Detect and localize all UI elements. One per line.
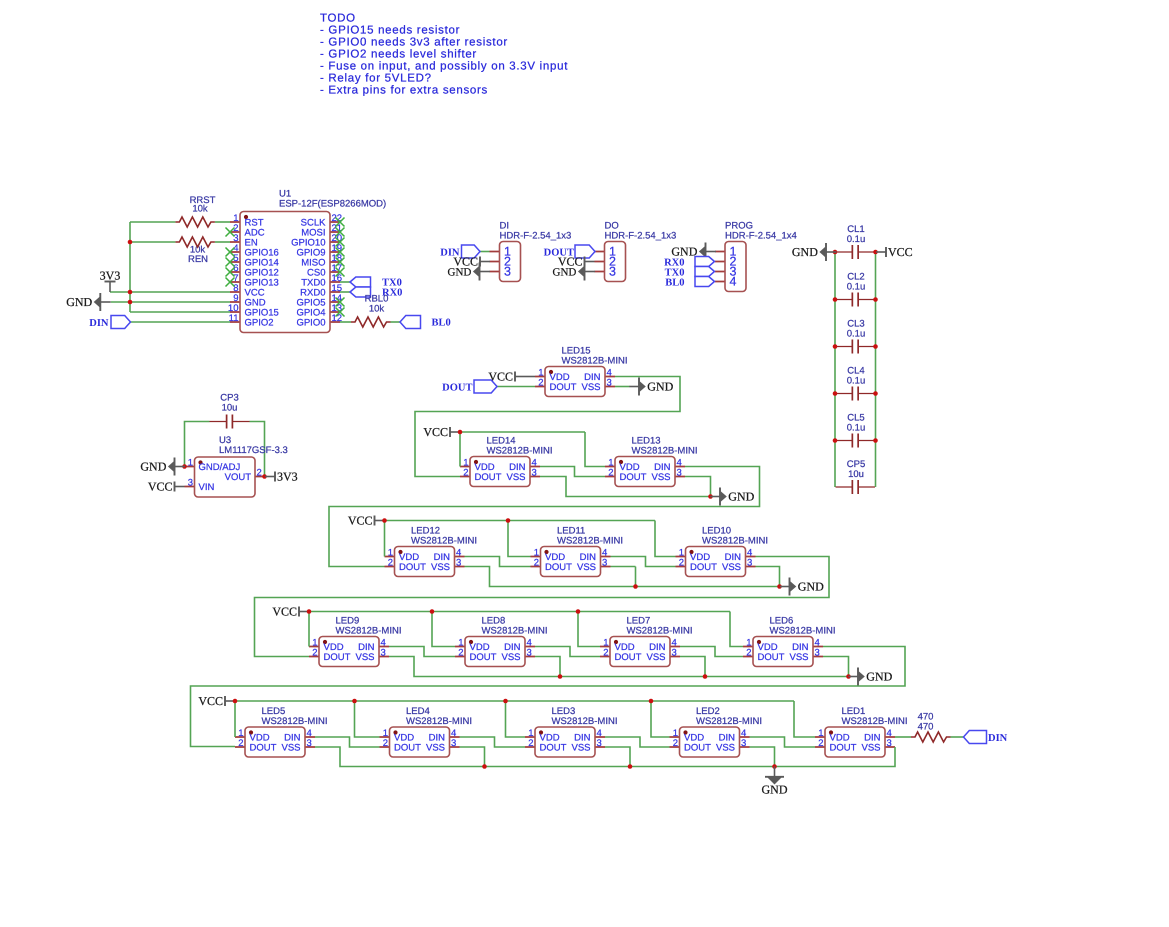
svg-text:VCC: VCC: [148, 480, 173, 494]
junction VCC row 2: [458, 430, 463, 435]
svg-text:10k: 10k: [369, 304, 385, 315]
svg-text:WS2812B-MINI: WS2812B-MINI: [411, 536, 477, 547]
resistor RRST labels: [190, 195, 216, 215]
junction CL1 right: [873, 250, 878, 255]
svg-text:2: 2: [312, 647, 317, 658]
svg-text:GND: GND: [448, 267, 472, 279]
svg-text:DOUT: DOUT: [615, 652, 642, 663]
hierarchical label DOUT at LED15: [474, 380, 497, 393]
LED LED12 refdes/value labels: [411, 526, 477, 547]
ground symbol GND at row 3: [780, 578, 824, 596]
svg-text:WS2812B-MINI: WS2812B-MINI: [627, 626, 693, 637]
svg-text:0.1u: 0.1u: [847, 234, 866, 245]
wire LED3 VSS drop: [605, 747, 630, 767]
svg-text:2: 2: [388, 557, 393, 568]
wire VCC rail row 5: [235, 700, 794, 702]
svg-text:LM1117GSF-3.3: LM1117GSF-3.3: [219, 445, 288, 456]
hierarchical label TX0: [350, 277, 371, 287]
svg-text:3: 3: [381, 647, 386, 658]
svg-text:DOUT: DOUT: [550, 382, 577, 393]
wire VCC rail row 4: [309, 611, 730, 613]
LED LED8 WS2812B-MINI symbol: [455, 637, 535, 667]
LED LED3 refdes/value labels: [552, 706, 618, 727]
svg-text:DOUT: DOUT: [250, 743, 277, 754]
junction VCC row 4: [307, 609, 312, 614]
wire LED5 DIN from LED4 DOUT: [315, 737, 380, 747]
svg-text:- GPIO15 needs resistor: - GPIO15 needs resistor: [320, 25, 460, 37]
power symbol VCC at row 2: [423, 425, 460, 439]
LED LED13 WS2812B-MINI symbol: [605, 457, 685, 487]
wire RBL0 to BL0 label: [391, 321, 401, 323]
svg-text:2: 2: [238, 738, 243, 749]
wire LED2 DIN from LED1 DOUT: [750, 737, 816, 747]
svg-text:- Relay for 5VLED?: - Relay for 5VLED?: [320, 73, 432, 85]
svg-text:GPIO2: GPIO2: [245, 318, 274, 329]
capacitor CL4 labels: [847, 366, 866, 387]
wire LED10 DIN from LED9 DOUT: [255, 557, 830, 657]
ground symbol GND at row 5: [762, 767, 788, 797]
svg-text:- GPIO2 needs level shifter: - GPIO2 needs level shifter: [320, 49, 477, 61]
svg-text:GND: GND: [647, 380, 673, 394]
wire DOUT label to LED15 DOUT: [497, 386, 535, 388]
power symbol VCC at row 3: [348, 514, 385, 528]
resistor 470: [911, 732, 951, 742]
svg-text:DOUT: DOUT: [475, 472, 502, 483]
junction CL4 right: [873, 391, 878, 396]
hierarchical label DIN at U1: [111, 316, 131, 329]
svg-text:GND: GND: [866, 670, 892, 684]
connector DO refdes and value labels: [605, 221, 677, 242]
wire LED13 DIN from LED12 DOUT: [329, 467, 760, 567]
wire LED8 DIN from LED7 DOUT: [535, 647, 600, 657]
wire LED7 VSS drop: [680, 657, 705, 677]
power symbol VCC at row 5: [198, 694, 235, 708]
svg-text:GND: GND: [140, 460, 166, 474]
wire DIN label to U1 pin 11 GPIO2: [131, 321, 231, 323]
capacitor CL5 labels: [847, 413, 866, 434]
svg-text:2: 2: [538, 377, 543, 388]
svg-text:WS2812B-MINI: WS2812B-MINI: [406, 716, 472, 727]
junction VCC drop LED3: [503, 699, 508, 704]
power symbol VCC at U3 VIN: [148, 480, 185, 494]
LED LED1 WS2812B-MINI symbol: [815, 727, 895, 757]
wire VCC drop to LED13 VDD: [585, 432, 605, 467]
wire VCC drop to LED14 VDD: [459, 432, 461, 467]
svg-text:VSS: VSS: [506, 472, 525, 483]
resistor RRST 10k: [175, 217, 214, 227]
svg-text:WS2812B-MINI: WS2812B-MINI: [552, 716, 618, 727]
capacitor CL3 labels: [847, 319, 866, 340]
svg-text:2: 2: [528, 738, 533, 749]
junction VCC drop LED7: [576, 609, 581, 614]
svg-text:2: 2: [534, 557, 539, 568]
wire LED3 DIN from LED2 DOUT: [605, 737, 670, 747]
wire resistor 470 to DIN label: [951, 736, 964, 738]
svg-text:GPIO0: GPIO0: [296, 318, 325, 329]
svg-text:DOUT: DOUT: [394, 743, 421, 754]
junction CL5 right: [873, 438, 878, 443]
junction VCC drop LED4: [352, 699, 357, 704]
svg-text:GND: GND: [66, 295, 92, 309]
svg-text:3V3: 3V3: [277, 470, 298, 484]
ground symbol GND at U1 pin 9: [66, 293, 111, 311]
wire GND to U1 pin 9: [111, 301, 230, 303]
junction VSS LED8 row 4: [558, 674, 563, 679]
svg-text:3: 3: [677, 467, 682, 478]
hierarchical label DOUT at DO: [575, 245, 595, 258]
svg-text:VSS: VSS: [426, 743, 445, 754]
connector DO HDR-F-2.54_1x3 symbol: [595, 242, 626, 282]
svg-text:GND: GND: [762, 783, 788, 797]
wire VCC drop to LED7 VDD: [578, 612, 600, 647]
junction bus/REN: [128, 240, 133, 245]
connector DI HDR-F-2.54_1x3 symbol: [490, 242, 521, 282]
svg-text:WS2812B-MINI: WS2812B-MINI: [487, 446, 553, 457]
wire GND rail of capacitor bank: [834, 252, 836, 487]
svg-text:WS2812B-MINI: WS2812B-MINI: [842, 716, 908, 727]
hierarchical label RX0: [350, 287, 371, 297]
junction VCC row 3: [382, 518, 387, 523]
svg-text:2: 2: [257, 467, 262, 478]
svg-text:GND: GND: [728, 490, 754, 504]
svg-text:ESP-12F(ESP8266MOD): ESP-12F(ESP8266MOD): [279, 199, 386, 210]
resistor REN labels: [188, 245, 208, 266]
svg-text:DOUT: DOUT: [690, 562, 717, 573]
connector DI refdes and value labels: [500, 221, 572, 242]
svg-text:VCC: VCC: [423, 425, 448, 439]
LED LED14 WS2812B-MINI symbol: [460, 457, 540, 487]
svg-text:GND: GND: [671, 245, 697, 259]
svg-text:2: 2: [746, 647, 751, 658]
svg-text:2: 2: [679, 557, 684, 568]
svg-text:2: 2: [463, 467, 468, 478]
ground symbol GND at row 4: [848, 668, 892, 686]
LED LED6 WS2812B-MINI symbol: [743, 637, 823, 667]
wire LED8 VSS drop: [535, 657, 560, 677]
LED LED1 refdes/value labels: [842, 706, 908, 727]
ground symbol GND at DI pin 3: [448, 263, 490, 281]
svg-text:WS2812B-MINI: WS2812B-MINI: [262, 716, 328, 727]
svg-text:2: 2: [673, 738, 678, 749]
no-connect flag U1 pin 14: [336, 298, 345, 307]
svg-text:DOUT: DOUT: [620, 472, 647, 483]
wire VSS rail row 5: [315, 747, 895, 767]
ground symbol GND at capacitor bank: [792, 243, 837, 261]
svg-text:VCC: VCC: [888, 245, 913, 259]
LED LED11 refdes/value labels: [557, 526, 623, 547]
wire VCC rail of capacitor bank: [875, 252, 877, 487]
svg-text:VSS: VSS: [646, 652, 665, 663]
power symbol 3V3 at U1: [100, 269, 121, 293]
ground symbol GND at PROG pin 1: [671, 243, 716, 261]
power symbol VCC at DI pin 2: [453, 255, 490, 269]
svg-text:VSS: VSS: [577, 562, 596, 573]
svg-text:VSS: VSS: [281, 743, 300, 754]
svg-text:DOUT: DOUT: [830, 743, 857, 754]
svg-text:10k: 10k: [192, 204, 208, 215]
junction GND row 5: [772, 764, 777, 769]
junction CL5 left: [833, 438, 838, 443]
svg-text:0.1u: 0.1u: [847, 282, 866, 293]
svg-text:3: 3: [747, 557, 752, 568]
no-connect flag U1 pin 7: [226, 278, 235, 287]
TODO note text block: [320, 13, 568, 97]
svg-text:WS2812B-MINI: WS2812B-MINI: [557, 536, 623, 547]
ground symbol GND at LED15: [629, 378, 673, 396]
resistor RBL0 labels: [365, 294, 389, 315]
wire LED6 DIN from LED5 DOUT: [191, 647, 906, 747]
svg-text:3: 3: [607, 377, 612, 388]
svg-text:VCC: VCC: [198, 694, 223, 708]
LED LED14 refdes/value labels: [487, 436, 553, 457]
resistor REN 10k: [175, 237, 214, 247]
wire LED14 DIN from LED13 DOUT: [540, 467, 605, 477]
wire U1 GPIO0 to RBL0: [340, 321, 351, 323]
no-connect flag U1 pin 4: [226, 248, 235, 257]
no-connect flag U1 pin 18: [336, 258, 345, 267]
junction VCC row 5: [233, 699, 238, 704]
svg-text:TODO: TODO: [320, 13, 356, 25]
svg-text:3: 3: [815, 647, 820, 658]
junction bus/GND row: [128, 300, 133, 305]
svg-text:WS2812B-MINI: WS2812B-MINI: [562, 356, 628, 367]
junction GND row 3: [777, 584, 782, 589]
U1 ESP-12F(ESP8266MOD) symbol: [228, 212, 342, 333]
hierarchical label DIN at LED1: [964, 731, 987, 744]
wire U1 TXD0 to TX0 label: [340, 281, 350, 283]
LED LED9 refdes/value labels: [336, 616, 402, 637]
wire VCC rail row 3: [385, 520, 656, 522]
LED LED4 refdes/value labels: [406, 706, 472, 727]
LED LED10 refdes/value labels: [702, 526, 768, 547]
wire DIN label to DI pin 1: [480, 251, 490, 253]
svg-text:HDR-F-2.54_1x3: HDR-F-2.54_1x3: [605, 231, 677, 242]
LED LED9 WS2812B-MINI symbol: [309, 637, 389, 667]
ground symbol GND at U3: [140, 458, 185, 476]
power symbol 3V3 at U3 VOUT: [265, 470, 298, 484]
svg-text:VSS: VSS: [789, 652, 808, 663]
wire LED11 DIN from LED10 DOUT: [611, 557, 676, 567]
power symbol VCC at row 4: [272, 605, 309, 619]
resistor 470 labels: [918, 712, 934, 733]
junction CL3 left: [833, 344, 838, 349]
LED LED8 refdes/value labels: [482, 616, 548, 637]
junction CL2 left: [833, 297, 838, 302]
wire LED11 VSS stub right: [611, 566, 636, 568]
junction VSS LED4 row 5: [482, 764, 487, 769]
svg-text:2: 2: [818, 738, 823, 749]
wire LED15 DIN from LED14 DOUT: [415, 377, 680, 477]
junction VCC drop LED2: [649, 699, 654, 704]
wire LED1 DIN to resistor 470: [895, 736, 911, 738]
junction U3 VOUT pin: [262, 474, 267, 479]
wire REN left to bus: [130, 241, 175, 243]
hierarchical label BL0 at PROG: [695, 277, 715, 287]
LED LED3 WS2812B-MINI symbol: [525, 727, 605, 757]
no-connect flag U1 pin 6: [226, 268, 235, 277]
wire LED15 VSS to GND: [615, 386, 630, 388]
svg-text:VSS: VSS: [571, 743, 590, 754]
svg-text:VSS: VSS: [861, 743, 880, 754]
LED LED5 WS2812B-MINI symbol: [235, 727, 315, 757]
svg-text:- GPIO0 needs 3v3 after resist: - GPIO0 needs 3v3 after resistor: [320, 37, 508, 49]
wire LED13 VSS to GND rail row 2: [685, 477, 711, 497]
svg-text:2: 2: [608, 467, 613, 478]
svg-text:WS2812B-MINI: WS2812B-MINI: [702, 536, 768, 547]
wire 3V3 to U1 pin 8 VCC: [110, 291, 230, 293]
LED LED5 refdes/value labels: [262, 706, 328, 727]
wire VCC drop to LED5 VDD: [234, 701, 236, 737]
svg-text:3: 3: [504, 265, 511, 279]
svg-text:GND: GND: [553, 267, 577, 279]
no-connect flag U1 pin 13: [336, 308, 345, 317]
LED LED4 WS2812B-MINI symbol: [380, 727, 460, 757]
junction VSS LED11 row 3: [633, 584, 638, 589]
wire LED2 VSS drop: [750, 747, 775, 767]
svg-text:VCC: VCC: [348, 514, 373, 528]
junction VSS LED7 row 4: [703, 674, 708, 679]
junction VCC drop LED8: [430, 609, 435, 614]
wire VCC drop to LED3 VDD: [506, 701, 526, 737]
svg-text:VIN: VIN: [199, 482, 215, 493]
wire VCC drop to LED12 VDD: [384, 521, 386, 557]
svg-text:10u: 10u: [222, 403, 238, 414]
no-connect flag U1 pin 5: [226, 258, 235, 267]
wire U1 RXD0 to RX0 label: [340, 291, 350, 293]
svg-text:DOUT: DOUT: [540, 743, 567, 754]
svg-text:DOUT: DOUT: [545, 562, 572, 573]
svg-text:0.1u: 0.1u: [847, 329, 866, 340]
no-connect flag U1 pin 21: [336, 228, 345, 237]
ground symbol GND at DO pin 3: [553, 263, 595, 281]
svg-text:WS2812B-MINI: WS2812B-MINI: [696, 716, 762, 727]
junction CL3 right: [873, 344, 878, 349]
svg-text:3: 3: [532, 467, 537, 478]
svg-text:3: 3: [451, 738, 456, 749]
hierarchical label BL0: [400, 316, 421, 329]
capacitor CP5 labels: [847, 459, 865, 480]
LED LED15 WS2812B-MINI symbol: [535, 367, 615, 397]
wire VCC drop to LED6 VDD: [730, 612, 743, 647]
wire VCC drop to LED10 VDD: [655, 521, 676, 557]
LED LED7 refdes/value labels: [627, 616, 693, 637]
svg-text:0.1u: 0.1u: [847, 376, 866, 387]
wire VCC drop to LED9 VDD: [308, 612, 310, 647]
svg-text:3: 3: [741, 738, 746, 749]
hierarchical label TX0 at PROG: [695, 267, 715, 277]
wire REN right to U1 pin 3: [215, 241, 230, 243]
wire LED11 VSS drop: [635, 567, 637, 587]
capacitor CL5 0.1u: [836, 434, 875, 448]
no-connect flag U1 pin 2: [226, 228, 235, 237]
svg-text:VSS: VSS: [501, 652, 520, 663]
hierarchical label DIN at DI: [462, 245, 481, 258]
svg-text:VOUT: VOUT: [225, 472, 252, 483]
junction VCC drop LED11: [506, 518, 511, 523]
svg-text:DOUT: DOUT: [399, 562, 426, 573]
junction GND row 4: [846, 674, 851, 679]
op-amp U1 refdes and value labels: [279, 189, 386, 210]
wire LED9 DIN from LED8 DOUT: [389, 647, 455, 657]
svg-text:4: 4: [730, 275, 737, 289]
svg-text:1: 1: [188, 457, 193, 468]
wire VCC drop to LED4 VDD: [355, 701, 380, 737]
svg-text:GND: GND: [792, 245, 818, 259]
svg-text:3V3: 3V3: [100, 269, 121, 283]
power symbol VCC at DO pin 2: [558, 255, 595, 269]
svg-text:DIN: DIN: [988, 733, 1008, 744]
capacitor CL3 0.1u: [836, 340, 875, 354]
svg-text:VSS: VSS: [722, 562, 741, 573]
capacitor CL1 labels: [847, 224, 866, 245]
wire LED4 VSS drop: [460, 747, 485, 767]
capacitor CL2 labels: [847, 272, 866, 293]
wire CP3 right to U3 VOUT: [250, 422, 265, 477]
no-connect flag U1 pin 19: [336, 248, 345, 257]
LED LED7 WS2812B-MINI symbol: [600, 637, 680, 667]
hierarchical label RX0 at PROG: [695, 257, 715, 267]
svg-text:BL0: BL0: [432, 318, 451, 329]
svg-text:3: 3: [307, 738, 312, 749]
svg-text:VSS: VSS: [651, 472, 670, 483]
svg-text:WS2812B-MINI: WS2812B-MINI: [336, 626, 402, 637]
svg-text:3: 3: [602, 557, 607, 568]
svg-text:3: 3: [527, 647, 532, 658]
LED LED11 WS2812B-MINI symbol: [531, 547, 611, 577]
svg-text:3: 3: [672, 647, 677, 658]
svg-text:3: 3: [456, 557, 461, 568]
capacitor CP3 10u: [210, 415, 250, 429]
wire LED7 DIN from LED6 DOUT: [680, 647, 743, 657]
LED LED15 refdes/value labels: [562, 346, 628, 367]
wire LED10 VSS drop: [756, 567, 780, 587]
wire VCC drop to LED2 VDD: [651, 701, 670, 737]
capacitor CL4 0.1u: [836, 387, 875, 401]
wire CP3 left to U3 GND: [185, 422, 210, 467]
junction VSS LED3 row 5: [628, 764, 633, 769]
svg-text:VCC: VCC: [272, 605, 297, 619]
LED LED2 refdes/value labels: [696, 706, 762, 727]
regulator U3 refdes and value labels: [219, 435, 288, 456]
svg-text:11: 11: [229, 313, 239, 324]
wire LED9 VSS to GND rail row 4: [389, 657, 849, 677]
svg-text:WS2812B-MINI: WS2812B-MINI: [482, 626, 548, 637]
svg-text:BL0: BL0: [665, 278, 684, 289]
junction U3 GND pin: [182, 464, 187, 469]
svg-text:VSS: VSS: [431, 562, 450, 573]
capacitor CP5 10u: [836, 480, 875, 494]
junction GND row 2: [708, 494, 713, 499]
LED LED13 refdes/value labels: [632, 436, 698, 457]
svg-text:DOUT: DOUT: [684, 743, 711, 754]
regulator U3 LM1117GSF-3.3 symbol: [185, 457, 266, 497]
svg-text:VSS: VSS: [716, 743, 735, 754]
wire vertical pullup bus left of U1: [129, 222, 131, 312]
power symbol VCC at capacitor bank: [876, 245, 913, 259]
junction bus/VCC row: [128, 290, 133, 295]
svg-text:REN: REN: [188, 254, 208, 265]
no-connect flag U1 pin 17: [336, 268, 345, 277]
svg-text:VSS: VSS: [581, 382, 600, 393]
svg-text:2: 2: [383, 738, 388, 749]
svg-text:DOUT: DOUT: [470, 652, 497, 663]
svg-text:DOUT: DOUT: [324, 652, 351, 663]
svg-text:VSS: VSS: [355, 652, 374, 663]
svg-text:- Fuse on input, and possibly: - Fuse on input, and possibly on 3.3V in…: [320, 61, 568, 73]
svg-text:DOUT: DOUT: [442, 383, 472, 394]
wire VCC drop to LED1 VDD: [794, 701, 815, 737]
no-connect flag U1 pin 20: [336, 238, 345, 247]
